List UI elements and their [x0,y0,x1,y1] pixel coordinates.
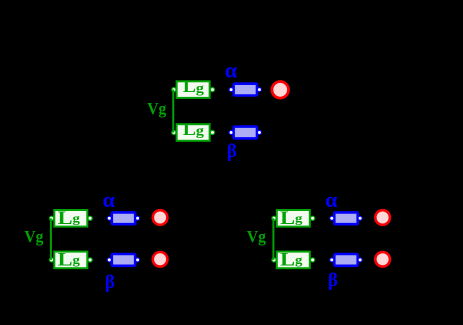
right terminal of Lg upper (cell 3, bottom right) [311,216,315,220]
label Vg (cell 2, bottom left) [24,227,43,246]
svg-text:Vg: Vg [24,227,43,246]
left terminal of beta (cell 1, top) [229,131,233,135]
resonator node beta (cell 3, bottom right) [375,252,390,267]
svg-text:Lg: Lg [183,77,204,96]
svg-text:Lg: Lg [183,120,204,139]
svg-text:Vg: Vg [147,99,166,118]
right terminal of alpha (cell 2, bottom left) [136,216,140,220]
right terminal of beta (cell 3, bottom right) [358,258,362,262]
svg-text:β: β [227,141,237,162]
resonator node beta (cell 2, bottom left) [153,252,168,267]
left terminal of Lg upper (cell 2, bottom left) [49,216,53,220]
right terminal of Lg lower (cell 2, bottom left) [88,258,92,262]
coupler beta (cell 3, bottom right) [334,254,357,266]
right terminal of beta (cell 1, top) [257,131,261,135]
left terminal of Lg upper (cell 1, top) [172,88,176,92]
left terminal of beta (cell 2, bottom left) [107,258,111,262]
label Vg (cell 1, top) [147,99,166,118]
right terminal of Lg lower (cell 1, top) [210,130,214,134]
inductor Lg lower (cell 1, top) [177,120,210,141]
label alpha (cell 2, bottom left) [103,187,116,212]
label beta (cell 1, top) [227,141,237,162]
left terminal of alpha (cell 1, top) [229,88,233,92]
coupler beta (cell 2, bottom left) [112,254,135,266]
inductor Lg lower (cell 3, bottom right) [277,250,310,271]
wire joining Lg left terminals (cell 1, top) [172,90,174,133]
inductor Lg upper (cell 3, bottom right) [277,208,310,229]
svg-text:Vg: Vg [247,227,266,246]
right terminal of Lg upper (cell 1, top) [210,88,214,92]
coupler alpha (cell 3, bottom right) [334,212,357,224]
left terminal of Lg lower (cell 3, bottom right) [272,258,276,262]
svg-text:α: α [225,57,238,82]
svg-text:β: β [105,272,115,293]
right terminal of Lg upper (cell 2, bottom left) [88,216,92,220]
resonator node alpha (cell 2, bottom left) [153,210,168,225]
coupler beta (cell 1, top) [234,127,257,139]
right terminal of beta (cell 2, bottom left) [136,258,140,262]
coupler alpha (cell 1, top) [234,84,257,96]
left terminal of Lg lower (cell 1, top) [172,130,176,134]
left terminal of Lg lower (cell 2, bottom left) [49,258,53,262]
label beta (cell 2, bottom left) [105,272,115,293]
label beta (cell 3, bottom right) [328,270,338,291]
inductor Lg upper (cell 2, bottom left) [54,208,87,229]
wire joining Lg left terminals (cell 3, bottom right) [272,218,274,260]
inductor Lg upper (cell 1, top) [177,77,210,98]
coupler alpha (cell 2, bottom left) [112,212,135,224]
right terminal of alpha (cell 3, bottom right) [358,216,362,220]
svg-text:β: β [328,270,338,291]
left terminal of beta (cell 3, bottom right) [330,258,334,262]
left terminal of alpha (cell 3, bottom right) [330,216,334,220]
inductor Lg lower (cell 2, bottom left) [54,250,87,271]
svg-text:α: α [325,187,338,212]
resonator node alpha (cell 1, top) [272,82,289,99]
resonator node alpha (cell 3, bottom right) [375,210,390,225]
left terminal of alpha (cell 2, bottom left) [107,216,111,220]
wire joining Lg left terminals (cell 2, bottom left) [50,218,52,260]
right terminal of alpha (cell 1, top) [257,88,261,92]
left terminal of Lg upper (cell 3, bottom right) [272,216,276,220]
label Vg (cell 3, bottom right) [247,227,266,246]
label alpha (cell 1, top) [225,57,238,82]
label alpha (cell 3, bottom right) [325,187,338,212]
svg-text:α: α [103,187,116,212]
right terminal of Lg lower (cell 3, bottom right) [311,258,315,262]
